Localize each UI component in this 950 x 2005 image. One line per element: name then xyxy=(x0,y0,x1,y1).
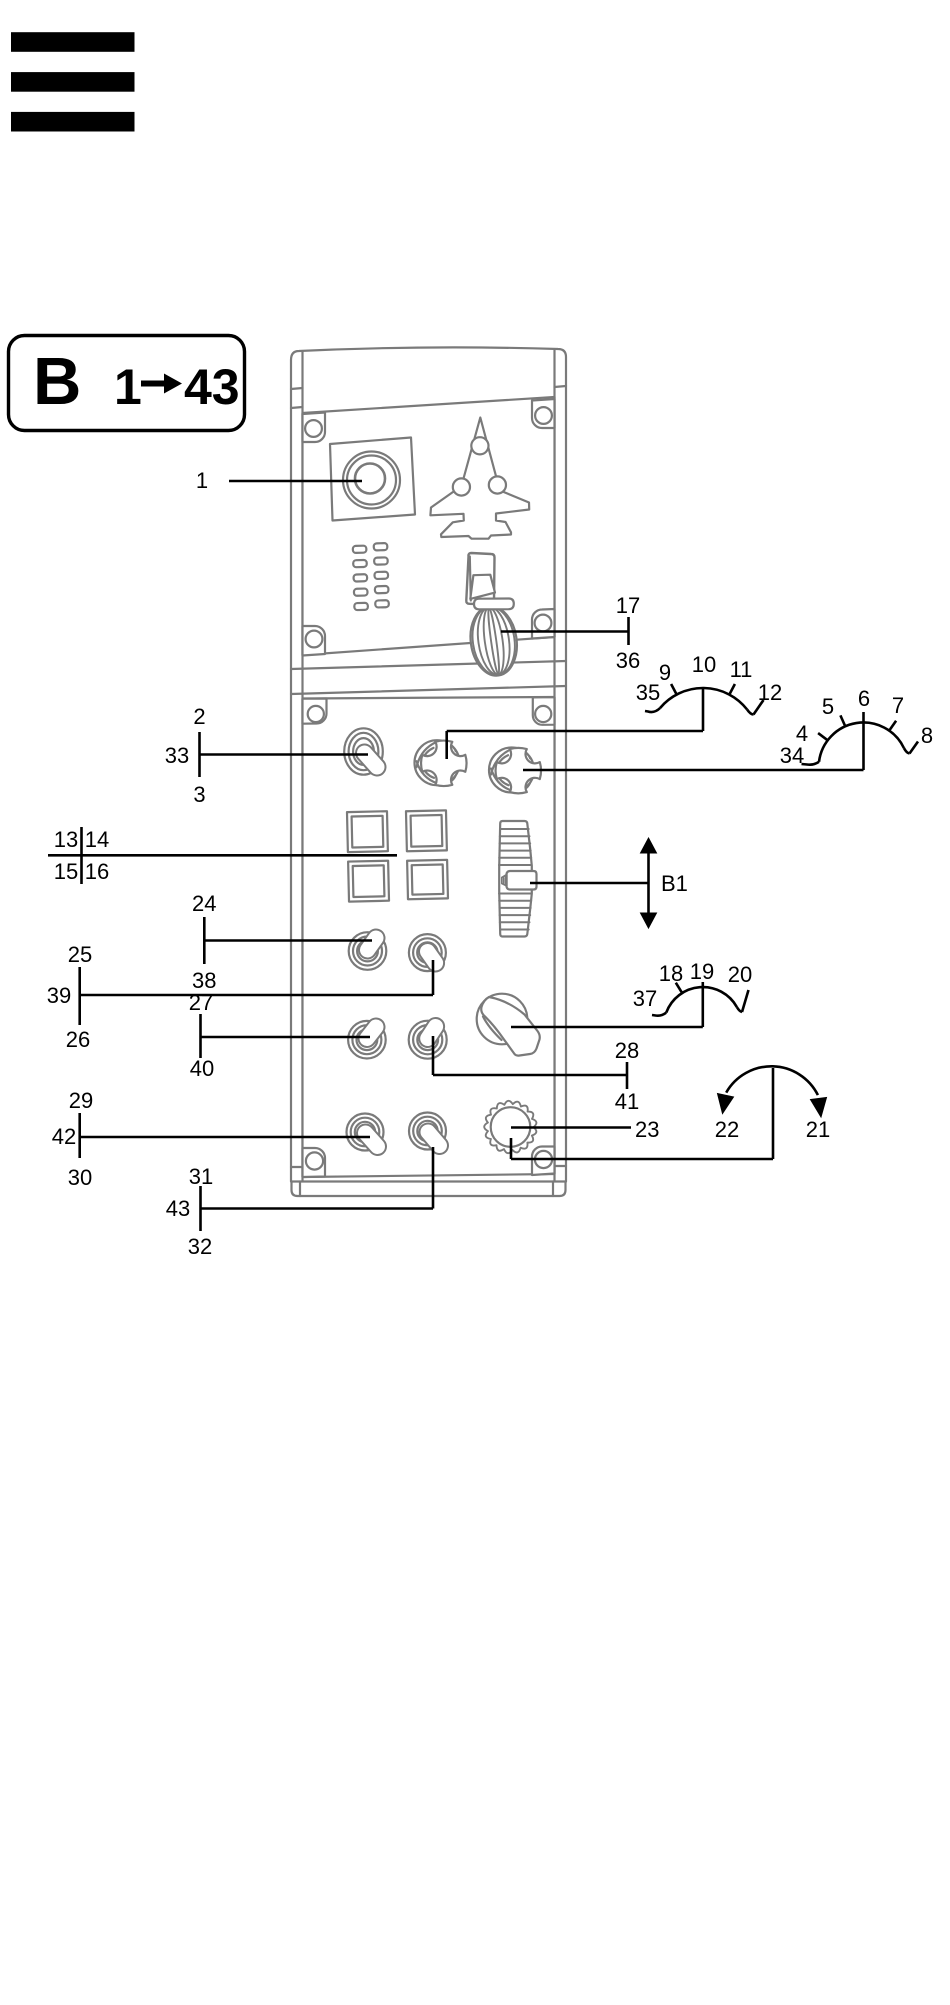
svg-text:22: 22 xyxy=(715,1117,739,1142)
svg-text:19: 19 xyxy=(690,959,714,984)
svg-text:14: 14 xyxy=(85,827,109,852)
svg-text:40: 40 xyxy=(190,1056,214,1081)
svg-text:28: 28 xyxy=(615,1038,639,1063)
svg-text:1: 1 xyxy=(114,359,142,415)
svg-text:32: 32 xyxy=(188,1234,212,1259)
svg-text:7: 7 xyxy=(892,693,904,718)
svg-text:8: 8 xyxy=(921,723,933,748)
svg-text:B1: B1 xyxy=(661,871,688,896)
svg-text:11: 11 xyxy=(730,657,753,682)
svg-text:36: 36 xyxy=(616,648,640,673)
svg-text:18: 18 xyxy=(659,961,683,986)
svg-text:26: 26 xyxy=(66,1027,90,1052)
svg-text:33: 33 xyxy=(165,743,189,768)
svg-text:30: 30 xyxy=(68,1165,92,1190)
svg-text:25: 25 xyxy=(68,942,92,967)
svg-text:3: 3 xyxy=(193,782,205,807)
svg-text:9: 9 xyxy=(659,660,671,685)
svg-text:27: 27 xyxy=(189,990,213,1015)
svg-text:24: 24 xyxy=(192,891,216,916)
svg-text:34: 34 xyxy=(780,743,804,768)
svg-text:13: 13 xyxy=(54,827,78,852)
svg-text:1: 1 xyxy=(196,468,208,493)
svg-text:15: 15 xyxy=(54,859,78,884)
svg-text:21: 21 xyxy=(806,1117,830,1142)
svg-text:35: 35 xyxy=(636,680,660,705)
svg-text:12: 12 xyxy=(758,680,782,705)
svg-text:17: 17 xyxy=(616,593,640,618)
svg-text:6: 6 xyxy=(858,686,870,711)
svg-text:5: 5 xyxy=(822,694,834,719)
svg-text:16: 16 xyxy=(85,859,109,884)
svg-text:41: 41 xyxy=(615,1089,639,1114)
svg-text:42: 42 xyxy=(52,1124,76,1149)
svg-text:23: 23 xyxy=(635,1117,659,1142)
svg-text:39: 39 xyxy=(47,983,71,1008)
svg-text:20: 20 xyxy=(728,962,752,987)
svg-text:29: 29 xyxy=(69,1088,93,1113)
svg-text:2: 2 xyxy=(193,704,205,729)
svg-text:4: 4 xyxy=(796,721,808,746)
svg-text:B: B xyxy=(33,344,81,419)
svg-text:43: 43 xyxy=(166,1196,190,1221)
svg-text:37: 37 xyxy=(633,986,657,1011)
svg-text:31: 31 xyxy=(189,1164,213,1189)
svg-text:10: 10 xyxy=(692,652,716,677)
svg-text:43: 43 xyxy=(184,359,240,415)
